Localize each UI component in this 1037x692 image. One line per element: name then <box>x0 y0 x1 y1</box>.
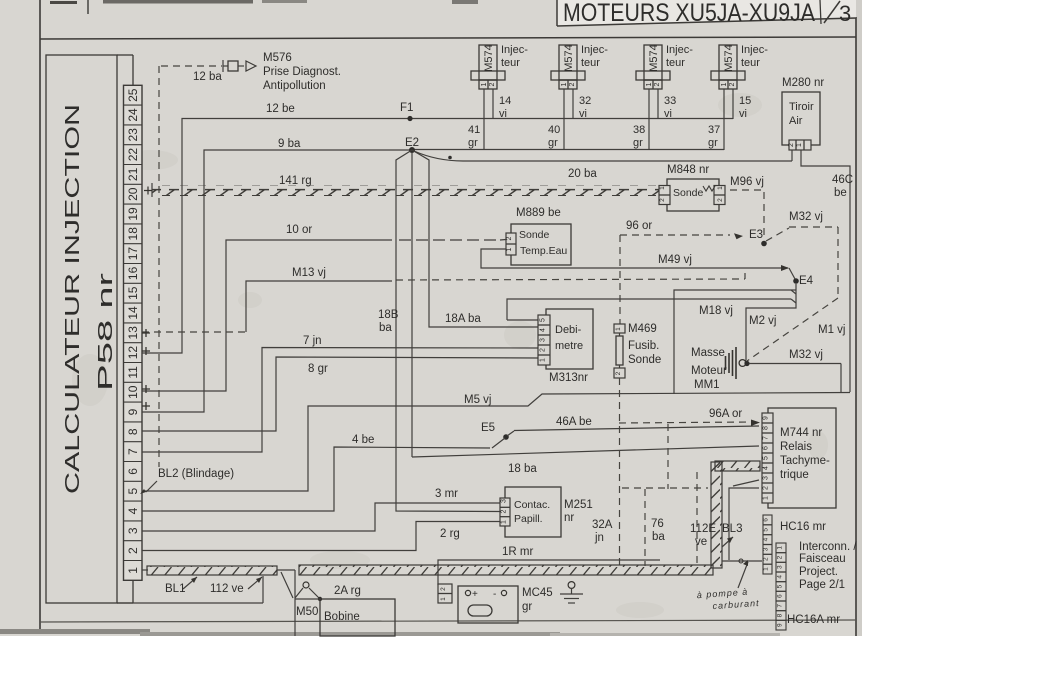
wire loop E4-left-down to ground rail <box>674 290 796 394</box>
node E4 <box>793 278 799 284</box>
svg-text:M32 vj: M32 vj <box>789 211 823 223</box>
label CALCULATEUR INJECTION <box>62 104 84 494</box>
svg-text:ve: ve <box>695 536 707 548</box>
svg-text:jn: jn <box>594 532 604 544</box>
wire pin1 to BL1 <box>142 569 148 571</box>
svg-text:nr: nr <box>564 512 574 524</box>
svg-text:40: 40 <box>548 124 560 136</box>
plus junction marks on pins <box>142 329 150 337</box>
svg-text:2: 2 <box>717 198 724 202</box>
svg-text:teur: teur <box>666 57 685 69</box>
svg-text:MOTEURS XU5JA-XU9JA: MOTEURS XU5JA-XU9JA <box>563 0 815 27</box>
svg-text:MC45: MC45 <box>522 587 553 599</box>
svg-text:HC16A mr: HC16A mr <box>787 614 840 626</box>
svg-text:46A be: 46A be <box>556 416 592 428</box>
svg-text:+: + <box>472 589 478 600</box>
svg-text:2: 2 <box>569 82 576 86</box>
svg-text:24: 24 <box>126 108 140 122</box>
svg-text:E2: E2 <box>405 137 419 149</box>
svg-text:trique: trique <box>780 469 809 481</box>
svg-text:4: 4 <box>763 466 770 470</box>
svg-text:Debi-: Debi- <box>555 324 582 336</box>
svg-text:Masse: Masse <box>691 347 725 359</box>
svg-text:5: 5 <box>777 584 784 588</box>
wire 12 be <box>142 119 733 354</box>
shielded bar BL1 <box>147 566 277 575</box>
svg-text:CALCULATEUR INJECTION: CALCULATEUR INJECTION <box>62 104 84 494</box>
svg-text:3: 3 <box>763 476 770 480</box>
svg-text:141 rg: 141 rg <box>279 175 312 187</box>
wire 20 ba curve from E2 to M280 <box>414 151 792 161</box>
frame top line <box>40 37 856 39</box>
svg-text:13: 13 <box>126 326 140 340</box>
bus 9ba continues to injectors <box>414 149 724 151</box>
svg-text:1: 1 <box>717 186 724 190</box>
svg-text:M848 nr: M848 nr <box>667 164 709 176</box>
svg-text:MM1: MM1 <box>694 379 720 391</box>
svg-text:1: 1 <box>615 327 622 331</box>
svg-text:M576: M576 <box>263 52 292 64</box>
frame bottom line <box>40 620 856 622</box>
svg-text:gr: gr <box>633 137 643 149</box>
svg-text:gr: gr <box>522 601 532 613</box>
ground symbol near MC45 <box>568 582 575 589</box>
injector M574 at x=653 <box>644 45 662 80</box>
component M50 bobine <box>277 569 295 571</box>
svg-text:M13 vj: M13 vj <box>292 267 326 279</box>
wire 10 or tail into M889 <box>500 239 506 242</box>
svg-text:BL1: BL1 <box>165 583 185 595</box>
svg-text:Moteur: Moteur <box>691 365 727 377</box>
svg-text:20: 20 <box>126 187 140 201</box>
shielded bar bottom long <box>299 565 713 575</box>
svg-text:14: 14 <box>126 306 140 320</box>
svg-text:M574: M574 <box>648 44 660 72</box>
wire 96A or dashed <box>619 422 752 423</box>
svg-text:1: 1 <box>777 546 784 550</box>
wire 1R mr <box>438 560 660 585</box>
masse moteur MM1 ground symbol <box>745 360 746 363</box>
svg-text:Injec-: Injec- <box>501 44 528 56</box>
svg-text:M5 vj: M5 vj <box>464 394 491 406</box>
svg-text:6: 6 <box>763 446 770 450</box>
svg-text:3 mr: 3 mr <box>435 488 458 500</box>
svg-text:1: 1 <box>646 82 653 86</box>
svg-text:Injec-: Injec- <box>741 44 768 56</box>
svg-text:3: 3 <box>839 1 851 26</box>
component M251 contac papillon <box>505 487 561 537</box>
svg-text:12 ba: 12 ba <box>193 71 222 83</box>
svg-text:2: 2 <box>540 348 547 352</box>
BL2 arrow to pin 5 <box>146 481 157 492</box>
svg-text:F1: F1 <box>400 102 413 114</box>
svg-text:Relais: Relais <box>780 441 812 453</box>
wire 2 rg <box>142 522 500 551</box>
svg-text:5: 5 <box>126 488 140 495</box>
svg-text:Air: Air <box>789 115 803 127</box>
svg-text:M18 vj: M18 vj <box>699 305 733 317</box>
svg-text:6: 6 <box>777 594 784 598</box>
svg-text:4: 4 <box>126 507 140 514</box>
svg-text:7 jn: 7 jn <box>303 335 322 347</box>
svg-text:2: 2 <box>763 486 770 490</box>
svg-text:teur: teur <box>581 57 600 69</box>
svg-text:18A ba: 18A ba <box>445 313 481 325</box>
svg-text:32: 32 <box>579 95 591 107</box>
svg-text:Tachyme-: Tachyme- <box>780 455 830 467</box>
svg-text:10 or: 10 or <box>286 224 312 236</box>
svg-text:gr: gr <box>468 137 478 149</box>
svg-text:gr: gr <box>708 137 718 149</box>
wire 9 ba <box>142 150 410 412</box>
svg-text:1: 1 <box>659 186 666 190</box>
wire M13 vj <box>142 331 246 333</box>
wire case ground strap to BL1 <box>117 602 263 604</box>
svg-text:Antipollution: Antipollution <box>263 80 326 92</box>
node E5 <box>503 434 509 440</box>
svg-text:1: 1 <box>506 247 513 251</box>
svg-text:E4: E4 <box>799 275 814 287</box>
svg-text:BL2 (Blindage): BL2 (Blindage) <box>158 468 234 480</box>
wire from E4 down then left (ground loop) <box>746 284 796 360</box>
svg-text:M32 vj: M32 vj <box>789 349 823 361</box>
frame right line <box>855 17 857 636</box>
svg-text:3: 3 <box>126 527 140 534</box>
svg-text:M251: M251 <box>564 499 593 511</box>
svg-text:1: 1 <box>440 597 447 601</box>
svg-text:5: 5 <box>540 318 547 322</box>
scanned paper area <box>0 0 862 636</box>
svg-text:4: 4 <box>763 537 770 541</box>
svg-text:1: 1 <box>763 567 770 571</box>
svg-text:Contac.: Contac. <box>514 499 550 511</box>
svg-text:10: 10 <box>126 385 140 399</box>
svg-text:Bobine: Bobine <box>324 611 360 623</box>
wire 7 jn <box>142 348 538 453</box>
svg-text:1: 1 <box>126 567 140 574</box>
svg-text:96A or: 96A or <box>709 408 742 420</box>
svg-text:HC16 mr: HC16 mr <box>780 521 826 533</box>
svg-text:20 ba: 20 ba <box>568 168 597 180</box>
svg-text:4 be: 4 be <box>352 434 374 446</box>
svg-text:18: 18 <box>126 227 140 241</box>
svg-text:BL3: BL3 <box>722 523 742 535</box>
svg-text:16: 16 <box>126 266 140 280</box>
svg-text:22: 22 <box>126 148 140 162</box>
M744 pin3 diagonal wire <box>733 480 759 486</box>
svg-text:112E: 112E <box>690 523 716 535</box>
svg-text:1R mr: 1R mr <box>502 546 533 558</box>
paper mottling <box>72 93 828 618</box>
svg-text:Prise Diagnost.: Prise Diagnost. <box>263 66 341 78</box>
svg-text:2: 2 <box>659 198 666 202</box>
svg-text:3: 3 <box>777 565 784 569</box>
wire 46A be <box>514 426 759 431</box>
svg-text:Injec-: Injec- <box>666 44 693 56</box>
svg-text:M96 vj: M96 vj <box>730 176 764 188</box>
svg-text:5: 5 <box>763 456 770 460</box>
connector M576 prise diagnostic <box>161 65 222 67</box>
trunk 18 ba vertical from E2 <box>411 153 413 457</box>
svg-text:6: 6 <box>126 468 140 475</box>
svg-text:vi: vi <box>664 108 672 120</box>
svg-text:M574: M574 <box>723 44 735 72</box>
wire M32 vj solid from masse <box>749 363 841 365</box>
svg-text:25: 25 <box>126 88 140 102</box>
bottom scan edge smudge <box>0 629 150 634</box>
injector M574 at x=488 <box>479 45 497 80</box>
component calculateur injection P58 box <box>46 55 117 603</box>
svg-text:Papill.: Papill. <box>514 513 543 525</box>
svg-text:12 be: 12 be <box>266 103 295 115</box>
svg-text:M2 vj: M2 vj <box>749 315 776 327</box>
svg-text:12: 12 <box>126 346 140 360</box>
label P58 nr <box>95 272 117 391</box>
shield BL2 dashed line <box>158 66 160 467</box>
injector M574 at x=728 <box>719 45 737 80</box>
node E2 <box>409 147 415 153</box>
svg-text:-: - <box>493 589 496 600</box>
svg-text:8 gr: 8 gr <box>308 363 328 375</box>
svg-text:3: 3 <box>501 499 508 503</box>
svg-text:4: 4 <box>777 575 784 579</box>
svg-text:Tiroir: Tiroir <box>789 101 814 113</box>
svg-text:M889 be: M889 be <box>516 207 561 219</box>
svg-text:1: 1 <box>540 358 547 362</box>
handwritten note a pompe a carburant <box>696 586 759 612</box>
svg-text:1: 1 <box>796 143 803 147</box>
svg-text:3: 3 <box>540 338 547 342</box>
wire M18 vj <box>507 319 538 321</box>
svg-text:2: 2 <box>654 82 661 86</box>
svg-text:M744 nr: M744 nr <box>780 427 822 439</box>
svg-text:metre: metre <box>555 340 583 352</box>
svg-text:23: 23 <box>126 128 140 142</box>
svg-text:3: 3 <box>763 547 770 551</box>
svg-text:Page 2/1: Page 2/1 <box>799 579 845 591</box>
svg-text:M49 vj: M49 vj <box>658 254 692 266</box>
wire M5 vj <box>142 393 850 492</box>
svg-text:2: 2 <box>763 557 770 561</box>
svg-text:2: 2 <box>788 143 795 147</box>
svg-text:M50: M50 <box>296 606 318 618</box>
wire M32 vj dashed upper <box>766 228 789 241</box>
connector HC16 <box>763 515 772 574</box>
svg-text:46C: 46C <box>832 174 853 186</box>
component M744 relais tachymetrique <box>768 408 836 508</box>
svg-text:1: 1 <box>721 82 728 86</box>
svg-text:9: 9 <box>777 623 784 627</box>
svg-text:21: 21 <box>126 167 140 181</box>
M744 pin1 wire left and down <box>729 488 759 560</box>
component M313 debimetre <box>546 309 593 369</box>
node E3 <box>761 241 767 247</box>
top cut-off text fragments <box>50 1 77 4</box>
svg-text:4: 4 <box>540 328 547 332</box>
dashed verticals 32A / 76 / 112E <box>667 424 669 489</box>
trunk 18B ba from E2 to contac <box>396 150 500 512</box>
svg-text:M1 vj: M1 vj <box>818 324 845 336</box>
svg-text:2: 2 <box>501 509 508 513</box>
svg-text:7: 7 <box>777 604 784 608</box>
wire 3 mr <box>142 503 500 531</box>
svg-text:2: 2 <box>729 82 736 86</box>
svg-text:M313nr: M313nr <box>549 372 588 384</box>
title block <box>557 0 856 26</box>
component M469 fusible sonde <box>614 324 625 333</box>
svg-text:7: 7 <box>763 436 770 440</box>
svg-text:1: 1 <box>561 82 568 86</box>
svg-text:Interconn. /: Interconn. / <box>799 541 857 553</box>
svg-text:2: 2 <box>615 371 622 375</box>
svg-text:8: 8 <box>763 426 770 430</box>
svg-text:M574: M574 <box>483 44 495 72</box>
shielded wire 141 rg braid <box>152 185 659 196</box>
svg-text:9: 9 <box>763 416 770 420</box>
svg-text:14: 14 <box>499 95 511 107</box>
svg-text:teur: teur <box>501 57 520 69</box>
svg-text:76: 76 <box>651 518 664 530</box>
short tick top-left <box>87 0 89 14</box>
svg-text:38: 38 <box>633 124 645 136</box>
svg-text:Sonde: Sonde <box>628 354 661 366</box>
svg-text:96 or: 96 or <box>626 220 652 232</box>
svg-text:8: 8 <box>126 428 140 435</box>
svg-text:2 rg: 2 rg <box>440 528 460 540</box>
svg-text:8: 8 <box>777 613 784 617</box>
svg-text:teur: teur <box>741 57 760 69</box>
shielded bar top horizontal to M744 <box>715 461 760 471</box>
svg-text:gr: gr <box>548 137 558 149</box>
frame left line <box>39 0 41 629</box>
svg-text:33: 33 <box>664 95 676 107</box>
wire 18 ba <box>412 446 759 457</box>
wire 46C be from M280 pin1 <box>801 150 850 392</box>
svg-text:2: 2 <box>777 555 784 559</box>
svg-text:vi: vi <box>579 108 587 120</box>
svg-text:Sonde: Sonde <box>673 187 704 199</box>
wire 10 or <box>142 240 392 391</box>
svg-text:vi: vi <box>499 108 507 120</box>
svg-text:11: 11 <box>126 366 140 379</box>
svg-text:M469: M469 <box>628 323 657 335</box>
svg-text:5: 5 <box>763 528 770 532</box>
shielded bar vertical <box>711 462 722 568</box>
svg-text:P58 nr: P58 nr <box>95 272 117 391</box>
trunk 18A ba from E2 to debimetre <box>412 150 538 327</box>
svg-text:41: 41 <box>468 124 480 136</box>
svg-text:9: 9 <box>126 408 140 415</box>
svg-text:19: 19 <box>126 207 140 221</box>
svg-text:9 ba: 9 ba <box>278 138 301 150</box>
svg-text:2: 2 <box>440 587 447 591</box>
svg-text:18B: 18B <box>378 309 399 321</box>
svg-text:M280 nr: M280 nr <box>782 77 824 89</box>
svg-text:2: 2 <box>489 82 496 86</box>
component MC45 battery <box>438 584 452 603</box>
svg-text:1: 1 <box>501 520 508 524</box>
svg-text:E3: E3 <box>749 229 763 241</box>
svg-text:7: 7 <box>126 448 140 455</box>
svg-text:Faisceau: Faisceau <box>799 553 846 565</box>
wire from braid to HC16 <box>722 560 762 562</box>
wire M49 vj <box>481 249 788 268</box>
svg-text:Fusib.: Fusib. <box>628 340 659 352</box>
svg-text:Sonde: Sonde <box>519 229 550 241</box>
svg-text:15: 15 <box>126 286 140 300</box>
wire 4 be <box>142 447 490 511</box>
dashed 96 or through fuse <box>619 378 621 566</box>
svg-text:ba: ba <box>379 322 392 334</box>
node F1 <box>407 116 412 121</box>
svg-text:ba: ba <box>652 531 665 543</box>
wire M280 pin2 down to 20ba <box>791 150 793 161</box>
svg-text:vi: vi <box>739 108 747 120</box>
svg-text:E5: E5 <box>481 422 495 434</box>
svg-text:15: 15 <box>739 95 751 107</box>
wire M96 vj <box>730 189 762 191</box>
svg-text:Project.: Project. <box>799 566 838 578</box>
svg-text:1: 1 <box>763 496 770 500</box>
svg-text:37: 37 <box>708 124 720 136</box>
svg-text:2: 2 <box>506 236 513 240</box>
svg-text:Temp.Eau: Temp.Eau <box>520 245 567 257</box>
connector pin strip 1-25 <box>124 85 143 580</box>
svg-text:32A: 32A <box>592 519 613 531</box>
injector M574 at x=568 <box>559 45 577 80</box>
svg-text:M574: M574 <box>563 44 575 72</box>
svg-text:6: 6 <box>763 518 770 522</box>
svg-text:2A rg: 2A rg <box>334 585 361 597</box>
svg-text:1: 1 <box>481 82 488 86</box>
svg-text:Injec-: Injec- <box>581 44 608 56</box>
connector HC16A <box>776 543 786 630</box>
svg-text:112 ve: 112 ve <box>210 583 244 595</box>
svg-text:17: 17 <box>126 247 140 261</box>
wire 96 or dashed with arrow to E3 <box>620 234 730 236</box>
svg-text:be: be <box>834 187 847 199</box>
svg-text:2: 2 <box>126 547 140 554</box>
svg-text:18 ba: 18 ba <box>508 463 537 475</box>
wire 8 gr <box>142 357 538 431</box>
